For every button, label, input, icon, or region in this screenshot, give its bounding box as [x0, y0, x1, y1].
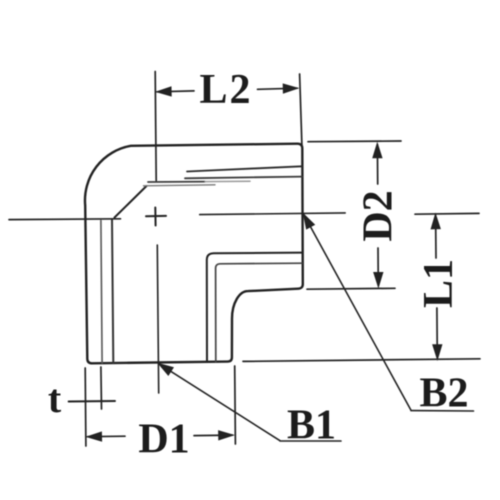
shoulder bore line — [144, 185, 216, 186]
svg-text:B1: B1 — [287, 403, 336, 449]
shoulder line faded part — [205, 180, 250, 182]
shoulder line dark — [148, 181, 205, 183]
D2 bottom extension line — [307, 287, 395, 290]
D1 left extension line — [84, 368, 87, 446]
left wall thread line — [112, 219, 113, 363]
L1 dimension line lower with arrow — [433, 308, 442, 359]
t extension line right — [100, 367, 103, 409]
svg-text:L1: L1 — [416, 259, 462, 308]
D2 top extension line — [308, 140, 401, 143]
svg-text:L2: L2 — [199, 67, 252, 113]
inner corner wall line 1 — [207, 253, 302, 362]
left wall bore line — [101, 221, 102, 363]
inner corner wall line 2 — [216, 263, 302, 362]
center cross horizontal — [146, 215, 166, 217]
shoulder chamfer diagonal — [115, 186, 147, 218]
L2 dimension line left part with arrow — [157, 87, 194, 96]
D1 dimension line right part with arrow — [194, 431, 233, 440]
leader line B2 — [304, 214, 474, 411]
svg-text:B2: B2 — [419, 371, 468, 417]
D1 right extension line — [234, 366, 237, 444]
svg-text:D2: D2 — [356, 190, 402, 241]
D1 dimension line left part with arrow — [87, 432, 125, 441]
svg-text:t: t — [48, 376, 62, 421]
svg-text:D1: D1 — [138, 417, 189, 463]
D2 dimension line lower with arrow — [374, 248, 383, 287]
L1 dimension line upper with arrow — [431, 214, 440, 258]
body outer contour — [85, 144, 303, 364]
L2 right extension line — [300, 74, 302, 145]
centerline horizontal right segment — [200, 213, 346, 215]
centerline L1 top extension segment — [415, 212, 479, 215]
thread line upper — [187, 166, 302, 171]
L2 dimension line right part with arrow — [258, 84, 298, 93]
L2 left extension line — [155, 72, 156, 181]
center cross vertical — [154, 208, 156, 226]
vertical centerline below body — [157, 245, 158, 393]
L1 bottom extension line — [243, 359, 480, 362]
thread line lower — [185, 177, 302, 179]
D2 dimension line upper with arrow — [373, 143, 382, 184]
centerline horizontal left segment — [9, 218, 121, 221]
leader line B1 — [159, 364, 342, 442]
t dimension line — [69, 400, 115, 403]
